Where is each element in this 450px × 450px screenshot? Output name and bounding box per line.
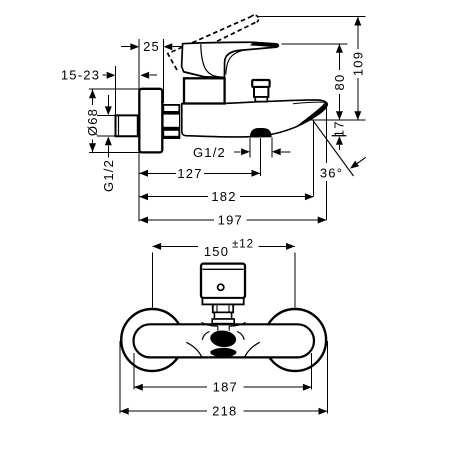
- aerator shadow crescent: [210, 348, 236, 357]
- aerator bump (side view): [250, 128, 272, 138]
- svg-text:G1/2: G1/2: [101, 159, 116, 192]
- handle neck contour: [226, 50, 248, 75]
- dimension 150±12: [151, 253, 153, 308]
- diverter neck: [255, 97, 267, 102]
- diverter mid: [254, 87, 268, 97]
- svg-text:Ø68: Ø68: [85, 108, 100, 136]
- diverter knob cap: [252, 80, 269, 87]
- wire: spout tip level line: [309, 119, 366, 121]
- dimension Ø68: [92, 90, 94, 106]
- svg-text:109: 109: [350, 51, 365, 76]
- aerator centerline: [259, 138, 261, 176]
- dashed handle (raised position): [168, 17, 251, 70]
- cartridge block: [184, 78, 225, 103]
- body + spout outline: [182, 100, 328, 137]
- dimension 187: [134, 386, 207, 388]
- dimension Ø68 extension lines: [89, 88, 139, 90]
- spout shoulder curves: [202, 322, 218, 326]
- dimension 187 extension lines: [133, 353, 135, 390]
- cartridge step 2: [214, 312, 231, 319]
- svg-text:17: 17: [332, 120, 347, 137]
- 36 degree leader arrow: [353, 157, 366, 167]
- left escutcheon circle: [121, 309, 183, 371]
- extension line from solid handle tip: [282, 43, 348, 45]
- dimension G1/2 (aerator) extension lines: [249, 138, 251, 158]
- wire: spout underside tangent extension line: [313, 122, 315, 197]
- svg-text:127: 127: [177, 166, 202, 181]
- dimension 25: [121, 46, 131, 48]
- svg-text:218: 218: [212, 404, 237, 419]
- svg-text:80: 80: [332, 74, 347, 91]
- wire: spout tip extension line: [326, 108, 328, 164]
- mixer body capsule: [134, 324, 315, 357]
- svg-text:±12: ±12: [232, 238, 254, 250]
- dimension G1/2 (left connector): [107, 95, 109, 106]
- wall plate escutcheon (side view): [139, 89, 162, 153]
- handle lower band: [202, 298, 243, 304]
- svg-text:G1/2: G1/2: [193, 145, 226, 160]
- dimension 127: [139, 172, 176, 174]
- handle skirt: [184, 72, 225, 78]
- extension line from dashed handle tip: [258, 16, 366, 18]
- dimension 109: [357, 17, 359, 49]
- svg-text:36°: 36°: [320, 166, 343, 181]
- cartridge collar: [212, 319, 234, 324]
- svg-text:150: 150: [204, 244, 229, 259]
- body contour arcs: [186, 342, 202, 357]
- svg-text:15-23: 15-23: [61, 67, 100, 82]
- dimension 182: [139, 196, 208, 198]
- handle inner contour: [201, 44, 220, 77]
- svg-text:197: 197: [218, 213, 243, 228]
- union nut between plate and body: [162, 104, 181, 139]
- spout top rim line: [293, 102, 325, 104]
- svg-text:182: 182: [211, 189, 236, 204]
- dimension 197: [139, 219, 214, 221]
- dimension 17: [332, 135, 347, 137]
- aerator (bottom view): [209, 329, 237, 348]
- svg-text:25: 25: [143, 39, 160, 54]
- right escutcheon circle: [264, 309, 326, 371]
- wire: left reference extension line (wall face): [138, 39, 140, 222]
- 36 degree diagonal: [313, 121, 354, 177]
- handle tip black wedge: [250, 42, 278, 47]
- svg-text:187: 187: [213, 380, 238, 395]
- dimension 218: [120, 410, 207, 412]
- handle hole: [218, 284, 224, 290]
- wire: 25 right extension line: [163, 39, 165, 103]
- spout tip heavy underside: [295, 103, 327, 128]
- dimension 218 extension lines: [119, 341, 121, 414]
- aerator side wings: [202, 332, 209, 340]
- G1/2 wall connector: [116, 115, 138, 136]
- handle (bottom view): [201, 264, 245, 298]
- dimension 80: [338, 44, 340, 70]
- handle (solid): [182, 42, 279, 77]
- wire: 15-23 left extension line: [114, 66, 116, 115]
- cartridge step 1: [213, 304, 233, 312]
